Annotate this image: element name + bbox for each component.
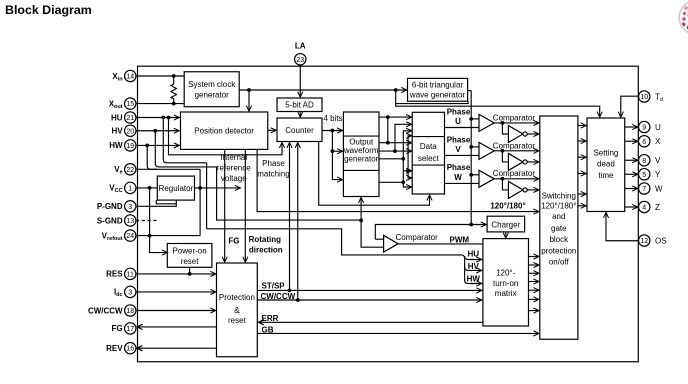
wire setting dead time output W: [625, 188, 638, 190]
wire counter bottom input from CW/CCW: [297, 143, 299, 300]
wire protection to FG pin: [137, 326, 216, 328]
junction bundle 403-182: [401, 180, 405, 184]
wire comparator W output to switching: [494, 178, 539, 180]
svg-text:W: W: [655, 184, 663, 193]
IC outline box: [138, 66, 639, 362]
wire counter output: [322, 130, 343, 132]
block: System clock generator: [184, 72, 239, 107]
junction bundle 408-170: [406, 169, 410, 173]
wire comparator U to inverter: [502, 123, 508, 134]
comparator W: [479, 170, 494, 187]
crystal resistor between Xin and Xout: [171, 76, 176, 104]
label Phase V: [447, 135, 471, 154]
pin Idc 3: [114, 286, 136, 298]
arrowhead into FG pin: [137, 324, 143, 329]
junction triangle bus phase U: [469, 117, 473, 121]
svg-text:19: 19: [126, 143, 134, 150]
junction clock to position detector: [247, 88, 251, 92]
wire HV branch down to control bus: [155, 131, 361, 220]
svg-text:Regulator: Regulator: [159, 184, 194, 193]
wire HU branch down to hall bus: [163, 118, 206, 163]
junction comparator U output: [501, 121, 505, 125]
block: Charger: [487, 216, 524, 232]
wire VCC down to Vrefout node and power-on reset: [150, 188, 168, 253]
svg-text:15: 15: [126, 101, 134, 108]
wire power-on reset output: [189, 267, 191, 274]
wire switching to setting dead time 6: [578, 205, 586, 207]
wire PWM output to matrix: [398, 243, 483, 245]
PWM comparator: [384, 235, 399, 252]
pin P-GND 3: [97, 201, 136, 212]
inverter U: [508, 126, 523, 143]
svg-text:RES: RES: [106, 270, 123, 279]
arrowhead into REV pin: [137, 346, 143, 351]
wire CW/CCW protection to matrix: [257, 299, 481, 301]
svg-text:HV: HV: [111, 127, 123, 136]
block: Switching 120/180 and gate block protection on/off: [540, 116, 578, 339]
wire bundle vertical x403 and row 131: [403, 131, 411, 183]
junction comparator V output: [501, 149, 505, 153]
comparator V: [479, 142, 494, 159]
wire comparator V output to switching: [494, 150, 539, 152]
svg-text:Counter: Counter: [285, 126, 314, 135]
wire matrix to switching 3: [529, 272, 539, 274]
wire bundle vertical x387: [387, 117, 389, 143]
wire matrix to switching 7: [529, 310, 539, 312]
svg-text:17: 17: [126, 326, 134, 333]
svg-text:Comparator: Comparator: [396, 233, 439, 242]
svg-text:6: 6: [642, 139, 646, 146]
svg-text:S-GND: S-GND: [97, 216, 123, 225]
comparator U: [479, 114, 494, 131]
wire CW/CCW pin to protection: [136, 310, 216, 312]
wire setting dead time output Y: [625, 173, 638, 175]
svg-text:waveform: waveform: [343, 146, 379, 155]
wire setting dead time output V: [625, 159, 638, 161]
junction triangle bus phase V: [469, 145, 473, 149]
wire switching to setting dead time 1: [578, 125, 586, 127]
svg-text:20: 20: [126, 128, 134, 135]
wire OWG output row 1 to data select: [379, 116, 412, 118]
svg-text:5-bit AD: 5-bit AD: [285, 101, 314, 110]
pin U 9: [639, 121, 661, 132]
label Phase W: [447, 163, 471, 182]
wire position detector to switching bus: [257, 149, 539, 211]
svg-text:&: &: [234, 306, 240, 315]
pin Vrefout 24: [102, 230, 136, 242]
wire VCC pin to regulator: [136, 187, 157, 189]
wire matrix to switching 4: [529, 281, 539, 283]
svg-text:120°-: 120°-: [496, 269, 516, 278]
block: Data select: [412, 112, 444, 194]
wire OWG output row 2 to data select: [379, 142, 412, 144]
wire GB protection to switching: [257, 332, 539, 334]
pin LA 23: [295, 42, 306, 65]
svg-text:Data: Data: [420, 142, 437, 151]
wire wave generator output stub: [468, 90, 472, 92]
svg-text:System clock: System clock: [188, 80, 236, 89]
block: Protection and reset: [217, 263, 258, 357]
junction Xout: [172, 102, 176, 106]
svg-text:3: 3: [128, 204, 132, 211]
junction counter out a: [331, 129, 335, 133]
wire bundle vertical x408 down row 178: [408, 171, 411, 178]
svg-text:ST/SP: ST/SP: [262, 281, 286, 290]
wire matrix hook HU: [465, 256, 482, 260]
svg-text:Power-on: Power-on: [172, 247, 206, 256]
wire counter out arrow 2: [332, 150, 342, 152]
junction HU a: [161, 116, 165, 120]
svg-text:Protection: Protection: [219, 293, 255, 302]
svg-text:16: 16: [126, 346, 134, 353]
wire regulator ground step: [156, 200, 176, 204]
junction triangle bus charger: [469, 223, 473, 227]
label Phase U: [447, 107, 471, 126]
wire Vrefout pin: [136, 235, 200, 237]
svg-text:Rotating: Rotating: [249, 235, 282, 244]
pin OS 12: [639, 235, 667, 246]
svg-text:4: 4: [642, 205, 646, 212]
pin V 8: [639, 155, 661, 166]
svg-text:FG: FG: [111, 324, 122, 333]
wire HW pin to position detector: [136, 144, 179, 146]
wire wave generator bottom feedback: [396, 101, 468, 103]
block: Output waveform generator: [343, 112, 379, 197]
svg-text:Setting: Setting: [593, 149, 618, 158]
svg-text:Z: Z: [655, 203, 660, 212]
pin Xout 15: [109, 98, 136, 110]
svg-text:Comparator: Comparator: [493, 169, 536, 178]
wire setting dead time output U: [625, 126, 638, 128]
wire position detector to counter: [268, 129, 276, 131]
pin RES 11: [106, 268, 136, 279]
pin HW 19: [109, 140, 136, 151]
wire position detector rotating direction line to protection: [244, 149, 246, 262]
svg-text:turn-on: turn-on: [493, 279, 518, 288]
wire bus to output waveform generator bottom: [360, 198, 362, 221]
wire ST/SP protection to matrix: [257, 289, 481, 291]
wire HU second branch to counter: [169, 118, 283, 155]
inverter V: [508, 153, 523, 170]
wire comparator W to inverter: [502, 179, 508, 190]
wire hall bus3 to turn-on matrix hooks: [207, 229, 482, 284]
svg-text:block: block: [549, 235, 569, 244]
svg-text:23: 23: [296, 57, 304, 64]
wire triangular wave bus down: [470, 91, 472, 225]
junction Xin: [172, 74, 176, 78]
wire data select phase W line: [445, 182, 480, 184]
wire HV pin to position detector: [136, 130, 179, 132]
wire HW branch down to Ve rail: [147, 145, 157, 169]
wire Td pin to setting dead time: [621, 96, 639, 117]
wire counter bottom input from ST/SP: [289, 143, 291, 291]
svg-text:dead: dead: [597, 160, 615, 169]
svg-text:13: 13: [126, 218, 134, 225]
svg-text:HV: HV: [468, 262, 480, 271]
wire Idc pin to protection: [136, 291, 216, 293]
svg-text:Block Diagram: Block Diagram: [5, 3, 92, 17]
junction clock to dead time path: [394, 88, 398, 92]
block: 6-bit triangular wave generator: [408, 78, 468, 101]
arrowhead ERR into protection: [258, 320, 264, 325]
pin Td 10: [639, 91, 663, 103]
svg-text:matching: matching: [257, 169, 289, 178]
svg-text:time: time: [598, 171, 614, 180]
svg-text:Phase: Phase: [447, 107, 471, 116]
svg-text:1: 1: [128, 185, 132, 192]
junction bundle 395-151: [393, 149, 397, 153]
pin FG 17: [111, 323, 135, 334]
wire hall bus drop: [206, 163, 208, 229]
wire reference node vertical: [199, 169, 201, 235]
svg-text:Position detector: Position detector: [194, 127, 254, 136]
junction HU b: [167, 116, 171, 120]
wire triangle bus to comparator W: [471, 174, 479, 176]
svg-text:Phase: Phase: [262, 159, 285, 168]
junction HV: [153, 129, 157, 133]
wire triangle bus to comparator V: [471, 146, 479, 148]
svg-text:9: 9: [642, 125, 646, 132]
wire setting dead time output X: [625, 140, 638, 142]
svg-text:generator: generator: [195, 91, 230, 100]
junction bundle 387-142: [386, 141, 390, 145]
wire counter fourth line to data select bottom: [319, 142, 430, 206]
junction CW/CCW to counter: [296, 298, 300, 302]
pin HU 21: [111, 112, 136, 123]
svg-text:7: 7: [642, 186, 646, 193]
junction ST/SP to counter: [288, 289, 292, 293]
svg-text:and: and: [552, 212, 565, 221]
svg-text:reset: reset: [228, 316, 247, 325]
svg-text:Switching: Switching: [542, 192, 576, 201]
block: Regulator: [157, 176, 194, 200]
wire switching to setting dead time 3: [578, 156, 586, 158]
wire switching to setting dead time 4: [578, 173, 586, 175]
svg-text:direction: direction: [249, 245, 283, 254]
svg-text:on/off: on/off: [549, 257, 570, 266]
svg-text:10: 10: [640, 94, 648, 101]
svg-text:REV: REV: [106, 344, 123, 353]
block: Power-on reset: [167, 244, 212, 268]
wire inverter W output to switching: [527, 189, 539, 191]
wire charger to matrix: [505, 232, 507, 238]
wire counter out vertical: [332, 131, 342, 180]
svg-text:Comparator: Comparator: [493, 113, 536, 122]
svg-text:X: X: [655, 137, 661, 146]
svg-text:18: 18: [126, 308, 134, 315]
svg-text:P-GND: P-GND: [97, 202, 123, 211]
wire switching to setting dead time 2: [578, 140, 586, 142]
wire Xin to clock generator: [136, 75, 184, 77]
wire clock branch down and right to setting dead time: [396, 90, 600, 117]
wire P-GND pin to regulator: [136, 200, 176, 206]
pin Ve 22: [114, 164, 136, 176]
svg-text:Comparator: Comparator: [493, 141, 536, 150]
wire ERR matrix to protection: [259, 321, 483, 323]
wire OS pin to setting dead time: [606, 213, 639, 241]
svg-text:FG: FG: [228, 237, 239, 246]
wire clock generator output: [239, 89, 407, 91]
label rotating direction: [249, 235, 283, 255]
svg-text:HW: HW: [467, 274, 481, 283]
svg-text:U: U: [455, 117, 461, 126]
svg-text:120°/180°: 120°/180°: [541, 201, 576, 210]
svg-text:4 bits: 4 bits: [323, 114, 342, 123]
svg-text:12: 12: [640, 238, 648, 245]
wire clock into position detector: [248, 90, 250, 111]
junction power-on reset to RES line: [188, 272, 192, 276]
wire bundle vertical x395 and row 124: [395, 124, 412, 151]
svg-text:14: 14: [126, 74, 134, 81]
junction regulator output: [198, 186, 202, 190]
decorative logo sliver top-right: [679, 1, 688, 38]
wire matrix to switching 1: [529, 256, 539, 258]
wire switching to setting dead time 5: [578, 193, 586, 195]
svg-text:21: 21: [126, 115, 134, 122]
wire setting dead time output Z: [625, 206, 638, 208]
pin Y 5: [639, 169, 661, 180]
svg-text:select: select: [418, 154, 440, 163]
block: Setting dead time: [587, 118, 625, 212]
wire Ve pin to reference node: [136, 168, 200, 170]
wire Xout to clock generator: [136, 103, 184, 105]
wire hall bus220 junction: [359, 219, 363, 223]
svg-text:5: 5: [642, 172, 646, 179]
pin Z 4: [639, 201, 660, 212]
svg-text:Phase: Phase: [447, 135, 471, 144]
block: Position detector: [181, 112, 268, 149]
block: Counter: [277, 118, 322, 142]
junction bundle 403-158: [401, 157, 405, 161]
wire counter out arrow 1: [332, 130, 342, 132]
block: 5-bit AD: [277, 98, 322, 112]
wire bundle row 170: [403, 170, 411, 172]
pin W 7: [639, 183, 663, 194]
junction VCC: [148, 186, 152, 190]
wire OWG output row 3 to data select: [379, 150, 412, 152]
svg-text:CW/CCW: CW/CCW: [88, 306, 123, 315]
svg-text:Y: Y: [655, 170, 661, 179]
label internal reference voltage: [217, 153, 251, 183]
wire bus to PWM comparator lower input: [361, 220, 383, 247]
pin CW/CCW 18: [88, 305, 136, 316]
svg-text:W: W: [454, 173, 462, 182]
wire RES pin to protection: [136, 273, 216, 275]
wire bundle row 187: [403, 182, 411, 187]
svg-text:LA: LA: [295, 42, 306, 51]
wire HU pin to position detector: [136, 117, 179, 119]
svg-text:OS: OS: [655, 236, 667, 245]
svg-text:V: V: [455, 145, 461, 154]
wire inverter V output to switching: [527, 161, 539, 163]
wire bundle vertical x408 up row 136: [408, 136, 411, 171]
svg-text:protection: protection: [541, 247, 576, 256]
wire data select phase V line: [445, 154, 480, 156]
junction HW: [145, 144, 149, 148]
svg-text:120°/180°: 120°/180°: [490, 202, 525, 211]
svg-text:V: V: [655, 156, 661, 165]
svg-text:22: 22: [126, 167, 134, 174]
junction comparator W output: [501, 177, 505, 181]
pin Xin 14: [112, 70, 136, 82]
svg-text:8: 8: [642, 158, 646, 165]
svg-text:reset: reset: [181, 257, 200, 266]
svg-text:HU: HU: [111, 113, 123, 122]
wire position detector FG line to protection: [224, 149, 226, 262]
svg-text:wave generator: wave generator: [409, 91, 465, 100]
wire matrix hook HV: [465, 267, 482, 271]
svg-text:Phase: Phase: [447, 163, 471, 172]
pin X 6: [639, 136, 661, 147]
svg-text:HU: HU: [468, 249, 480, 258]
svg-text:matrix: matrix: [495, 289, 517, 298]
wire OWG output row 4: [379, 181, 403, 183]
wire matrix to switching 6: [529, 298, 539, 300]
wire 5-bit AD to counter: [299, 112, 301, 118]
wire bundle row 158 stub: [379, 158, 403, 160]
svg-text:Charger: Charger: [491, 220, 520, 229]
wire matrix to switching 5: [529, 289, 539, 291]
inverter W: [508, 181, 523, 198]
wire matrix to switching 2: [529, 264, 539, 266]
pin HV 20: [111, 125, 135, 136]
pin S-GND 13: [97, 215, 136, 226]
label phase matching: [257, 159, 289, 178]
svg-text:generator: generator: [344, 155, 379, 164]
pin REV 16: [106, 343, 136, 354]
svg-text:PWM: PWM: [450, 235, 470, 244]
wire triangle bus to comparator U: [471, 118, 479, 120]
junction bundle 387-117: [386, 115, 390, 119]
junction triangle bus phase W: [469, 173, 473, 177]
wire inverter U output to switching: [527, 133, 539, 135]
junction counter out b: [331, 149, 335, 153]
junction Vrefout node: [148, 234, 152, 238]
svg-text:ERR: ERR: [262, 314, 279, 323]
wire S-GND dashed stub: [136, 220, 157, 222]
svg-text:gate: gate: [551, 224, 567, 233]
svg-text:U: U: [655, 123, 661, 132]
wire into PWM comparator top: [375, 238, 383, 240]
svg-text:11: 11: [127, 271, 134, 278]
wire data select phase U line: [445, 127, 480, 129]
svg-text:reference: reference: [217, 164, 251, 173]
wire protection to REV pin: [137, 347, 216, 349]
block: 120deg turn-on matrix: [483, 239, 529, 326]
svg-text:6-bit triangular: 6-bit triangular: [412, 80, 463, 89]
wire LA pin to 5-bit AD: [299, 65, 301, 97]
wire regulator output to internal reference voltage: [195, 187, 241, 189]
svg-text:24: 24: [126, 233, 134, 240]
wire comparator V to inverter: [502, 151, 508, 162]
svg-text:HW: HW: [109, 141, 123, 150]
wire comparator U output to switching: [494, 122, 539, 124]
svg-text:3: 3: [128, 289, 132, 296]
pin VCC 1: [109, 182, 136, 194]
wire triangle bus to PWM comparator and charger: [375, 225, 486, 240]
